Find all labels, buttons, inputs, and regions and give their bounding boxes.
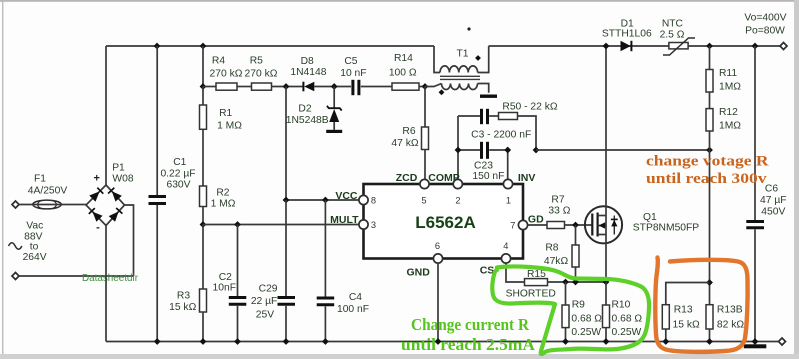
pin 5 ZCD (396, 172, 429, 206)
node (572, 222, 579, 229)
svg-text:R7: R7 (551, 195, 564, 206)
svg-text:270 kΩ: 270 kΩ (210, 69, 243, 80)
svg-text:2: 2 (455, 196, 460, 206)
AC input terminal top (12, 201, 19, 208)
svg-text:1N5248B: 1N5248B (286, 115, 329, 126)
svg-text:1MΩ: 1MΩ (719, 82, 741, 93)
svg-text:10nF: 10nF (213, 283, 236, 294)
svg-text:C6: C6 (765, 184, 778, 195)
svg-text:R10: R10 (612, 300, 631, 311)
svg-text:8: 8 (371, 196, 376, 206)
svg-text:L6562A: L6562A (415, 213, 475, 232)
ground secondary (480, 95, 497, 98)
svg-text:change votage R: change votage R (646, 154, 769, 170)
pin 4 CS (480, 241, 511, 277)
svg-text:C23: C23 (474, 161, 493, 172)
svg-text:R9: R9 (572, 300, 585, 311)
capacitor C5 10nF (340, 56, 366, 95)
pin 1 INV (503, 172, 535, 206)
capacitor C3 2200nF with resistor R50 22k branch (458, 102, 558, 151)
svg-text:1: 1 (506, 196, 511, 206)
capacitor C2 10nF (213, 225, 247, 342)
svg-text:47kΩ: 47kΩ (544, 256, 569, 267)
wire R13 top (666, 283, 710, 305)
svg-text:630V: 630V (166, 180, 190, 191)
node (435, 338, 442, 345)
svg-text:-: - (96, 222, 100, 234)
node (562, 338, 569, 345)
svg-text:STTH1L06: STTH1L06 (602, 29, 652, 40)
capacitor C23 150nF (458, 142, 508, 182)
svg-text:C4: C4 (349, 292, 362, 303)
node (662, 338, 669, 345)
svg-text:+: + (93, 173, 99, 185)
node (322, 197, 329, 204)
svg-text:COMP: COMP (428, 172, 460, 184)
wire (361, 86, 392, 88)
zener D2 1N5248B (286, 87, 342, 130)
node (706, 43, 713, 50)
node (752, 43, 759, 50)
svg-text:1MΩ: 1MΩ (719, 121, 741, 132)
svg-text:VCC: VCC (335, 190, 358, 202)
ground (326, 130, 342, 133)
resistor R10 0.68 (603, 282, 643, 342)
diode D1 STTH1L06 (602, 19, 652, 52)
svg-text:W08: W08 (112, 174, 133, 185)
bridge rectifier P1 W08 (86, 163, 134, 234)
node (572, 279, 579, 286)
resistor R15 SHORTED (506, 269, 606, 300)
svg-text:STP8NM50FP: STP8NM50FP (633, 223, 700, 234)
node (603, 338, 610, 345)
svg-text:C5: C5 (344, 56, 357, 67)
wire top rail left (106, 45, 434, 47)
diode D8 1N4148 (290, 56, 351, 91)
wire rail to R4 row (202, 46, 204, 87)
svg-text:MULT: MULT (330, 214, 359, 226)
wire bottom rail (106, 341, 780, 343)
label Vo Po (744, 13, 786, 37)
svg-text:R3: R3 (177, 291, 190, 302)
svg-text:GND: GND (407, 267, 431, 279)
svg-text:P1: P1 (112, 163, 125, 174)
IC U1 L6562A (364, 184, 524, 259)
pin 2 COMP (428, 172, 462, 206)
svg-text:10 nF: 10 nF (340, 68, 366, 79)
annotation orange loop (655, 258, 747, 352)
resistor R9 0.68 (562, 282, 602, 342)
pin 8 VCC (335, 190, 376, 206)
svg-text:T1: T1 (456, 49, 468, 60)
node (283, 197, 290, 204)
wire bridge right vertex to bottom AC (125, 205, 134, 276)
transformer T1 (425, 46, 489, 95)
wire (237, 86, 252, 88)
svg-text:22 µF: 22 µF (251, 296, 278, 307)
node (200, 221, 207, 228)
svg-text:D2: D2 (298, 104, 311, 115)
svg-text:1 MΩ: 1 MΩ (211, 199, 236, 210)
node (603, 43, 610, 50)
svg-text:R11: R11 (719, 68, 737, 79)
wire Q1 drain up (605, 46, 607, 216)
resistor R8 47k (544, 225, 579, 282)
svg-text:R5: R5 (250, 56, 263, 67)
svg-text:264V: 264V (23, 252, 47, 263)
transistor Q1 STP8NM50FP (585, 206, 699, 243)
svg-text:0.25W: 0.25W (571, 327, 601, 338)
svg-text:to: to (30, 242, 39, 253)
wire (419, 86, 425, 88)
fuse F1 4A/250V (28, 174, 68, 209)
svg-text:2.5 Ω: 2.5 Ω (660, 30, 685, 41)
svg-text:R13: R13 (674, 305, 693, 316)
svg-text:R12: R12 (719, 107, 738, 118)
node (455, 147, 462, 154)
svg-text:6: 6 (435, 241, 440, 251)
svg-text:R2: R2 (216, 188, 229, 199)
svg-text:450V: 450V (761, 207, 785, 218)
resistor R14 100ohm (389, 53, 419, 90)
svg-text:until reach 300v: until reach 300v (646, 171, 767, 187)
svg-text:Change current R: Change current R (411, 315, 530, 334)
resistor R6 47k (391, 87, 428, 183)
svg-text:Po=80W: Po=80W (745, 26, 785, 37)
node (283, 83, 290, 90)
svg-text:47 µF: 47 µF (760, 195, 787, 206)
svg-text:1N4148: 1N4148 (290, 67, 326, 78)
svg-text:C1: C1 (173, 157, 186, 168)
svg-text:SHORTED: SHORTED (506, 289, 556, 300)
wire R5-D8 junction down to VCC (285, 87, 287, 201)
stray mark (467, 27, 470, 30)
resistor R5 270k (245, 56, 278, 91)
pin 7 GD (510, 214, 544, 231)
node (234, 338, 241, 345)
capacitor C29 22uF 25V (251, 200, 295, 342)
svg-text:Vo=400V: Vo=400V (744, 13, 786, 24)
svg-text:33 Ω: 33 Ω (548, 206, 570, 217)
svg-text:INV: INV (518, 172, 536, 184)
svg-text:until reach 2.5mA: until reach 2.5mA (401, 335, 536, 354)
output terminal bottom (779, 338, 786, 345)
svg-text:D8: D8 (301, 56, 314, 67)
wire bridge plus up (105, 46, 107, 185)
svg-text:R1: R1 (219, 108, 232, 119)
node (504, 147, 511, 154)
resistor R13B 82k (706, 305, 744, 342)
svg-text:Datasheetdir: Datasheetdir (82, 272, 138, 284)
thermistor NTC 2.5ohm (660, 19, 695, 56)
node (200, 338, 207, 345)
wire feedback to divider (536, 149, 710, 151)
ground (744, 344, 767, 348)
svg-text:82 kΩ: 82 kΩ (717, 320, 744, 331)
svg-text:150 nF: 150 nF (472, 171, 504, 182)
svg-text:15 kΩ: 15 kΩ (673, 320, 700, 331)
annotation green text (401, 315, 536, 354)
annotation green loop (492, 266, 649, 354)
node (562, 279, 569, 286)
svg-text:25V: 25V (256, 310, 274, 321)
wire INV vertical (507, 150, 509, 182)
svg-text:NTC: NTC (662, 19, 684, 30)
wire (272, 86, 304, 88)
wire VCC rail (286, 199, 360, 201)
node (603, 279, 610, 286)
node (422, 83, 429, 90)
wire Q1 source down (605, 235, 607, 283)
svg-text:R50 - 22 kΩ: R50 - 22 kΩ (502, 102, 558, 113)
pin 6 GND (407, 241, 443, 279)
resistor R4 270k (203, 56, 243, 91)
svg-text:C2: C2 (219, 272, 232, 283)
wire (19, 204, 86, 206)
resistor R1 1M (200, 87, 243, 187)
svg-text:0.25W: 0.25W (612, 327, 642, 338)
svg-text:270 kΩ: 270 kΩ (245, 69, 278, 80)
svg-text:1 MΩ: 1 MΩ (217, 121, 242, 132)
svg-text:ZCD: ZCD (396, 172, 418, 184)
node (234, 221, 241, 228)
svg-text:R14: R14 (394, 53, 413, 64)
resistor R12 1M (706, 92, 741, 150)
capacitor C6 47uF 450V (746, 46, 786, 342)
svg-text:F1: F1 (34, 174, 46, 185)
svg-text:R8: R8 (545, 243, 558, 254)
AC source Vac 88V to 264V (9, 221, 47, 263)
wire GND pin down (437, 263, 439, 341)
svg-text:R15: R15 (527, 269, 546, 280)
svg-text:7: 7 (510, 221, 515, 231)
resistor R2 1M (200, 186, 236, 225)
svg-text:C3 - 2200 nF: C3 - 2200 nF (471, 130, 531, 141)
svg-text:15 kΩ: 15 kΩ (169, 302, 196, 313)
wire bridge minus down (105, 226, 107, 342)
svg-text:3: 3 (371, 220, 376, 230)
svg-text:Q1: Q1 (643, 212, 657, 223)
capacitor C1 0.22uF 630V (149, 46, 196, 342)
wire divider down (709, 150, 711, 305)
svg-text:0.68 Ω: 0.68 Ω (571, 314, 602, 325)
annotation orange text (646, 154, 769, 188)
svg-text:GD: GD (528, 214, 544, 226)
svg-text:C29: C29 (259, 284, 278, 295)
node (706, 279, 713, 286)
resistor R13 15k (662, 305, 700, 342)
capacitor C4 100nF (317, 200, 369, 342)
svg-text:4: 4 (503, 241, 508, 251)
output terminal top (780, 43, 787, 50)
node (533, 147, 540, 154)
node (200, 43, 207, 50)
svg-text:5: 5 (421, 196, 426, 206)
resistor R3 15k (169, 225, 206, 342)
wire CS pin to R15 (506, 263, 525, 282)
svg-text:R13B: R13B (717, 305, 743, 316)
svg-text:Vac: Vac (26, 221, 43, 232)
node (706, 338, 713, 345)
svg-text:R6: R6 (402, 126, 415, 137)
svg-text:0.22 µF: 0.22 µF (160, 169, 195, 180)
resistor R7 33ohm (528, 195, 592, 229)
node (154, 338, 161, 345)
svg-text:4A/250V: 4A/250V (28, 186, 68, 197)
node (752, 338, 759, 345)
svg-text:100 Ω: 100 Ω (389, 68, 417, 79)
svg-text:47 kΩ: 47 kΩ (391, 138, 418, 149)
node (706, 147, 713, 154)
wire MULT rail (203, 224, 360, 226)
svg-text:R4: R4 (212, 56, 225, 67)
pin 3 MULT (330, 214, 376, 230)
node (200, 83, 207, 90)
svg-text:0.68 Ω: 0.68 Ω (612, 314, 643, 325)
wire (19, 275, 134, 277)
node (283, 338, 290, 345)
AC input terminal bottom (12, 273, 19, 280)
node (154, 43, 161, 50)
node (331, 83, 338, 90)
svg-text:100 nF: 100 nF (337, 304, 369, 315)
wire top rail right (489, 45, 784, 47)
node (322, 338, 329, 345)
wire COMP vertical (457, 116, 459, 182)
resistor R11 1M (706, 46, 741, 93)
